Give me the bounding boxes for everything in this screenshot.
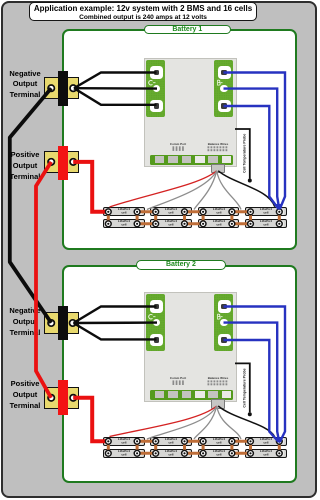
svg-text:Cell Temperature Probe: Cell Temperature Probe [242,368,246,407]
svg-text:Cell Temperature Probe: Cell Temperature Probe [242,134,246,173]
